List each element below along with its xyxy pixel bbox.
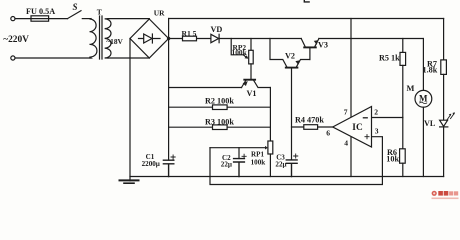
svg-text:R4 470k: R4 470k — [295, 116, 324, 125]
resistor R3 100k — [169, 126, 271, 128]
plus sign C1 — [171, 155, 175, 159]
svg-text:V3: V3 — [318, 41, 328, 50]
transistor V2 — [286, 67, 298, 69]
rail after rectifier — [169, 38, 302, 40]
output rail to motor — [319, 38, 423, 40]
svg-text:22µ: 22µ — [221, 160, 232, 168]
transformer core — [100, 16, 103, 59]
wire V3 base to V2 emitter — [309, 48, 311, 59]
diode VD — [211, 34, 219, 42]
top positive rail — [169, 18, 444, 20]
motor M — [415, 90, 432, 107]
ground — [120, 179, 139, 181]
svg-text:VL: VL — [424, 119, 436, 128]
resistor R7 1.8k — [441, 60, 447, 75]
potentiometer RP1 100k — [268, 141, 273, 154]
svg-text:T: T — [97, 8, 102, 17]
LED VL — [440, 120, 448, 126]
svg-text:22µ: 22µ — [275, 160, 286, 168]
junction bridge positive — [167, 37, 170, 40]
AC input terminal N — [11, 56, 15, 60]
svg-text:1.8k: 1.8k — [423, 66, 438, 75]
wire V1 collector down — [269, 88, 271, 142]
AC input terminal L — [11, 17, 15, 21]
op-amp IC — [333, 107, 372, 148]
svg-text:7: 7 — [344, 107, 348, 116]
resistor R2 100k — [169, 106, 271, 108]
plus sign C2 — [242, 154, 246, 158]
minus input mark — [363, 117, 367, 119]
fuse FU 0.5A — [31, 16, 49, 21]
wire op-amp pin 2 — [372, 117, 403, 119]
bottom ground rail — [130, 176, 444, 178]
svg-text:~18V: ~18V — [106, 37, 123, 46]
svg-text:R5 1k: R5 1k — [379, 54, 400, 63]
resistor R6 10k — [402, 118, 404, 149]
svg-text:2: 2 — [374, 108, 378, 117]
wire R7 to LED VL — [443, 74, 445, 120]
svg-text:2200µ: 2200µ — [142, 160, 160, 168]
plus input mark — [365, 135, 369, 139]
svg-text:10k: 10k — [386, 154, 399, 163]
capacitor C2 22µ — [238, 148, 240, 159]
svg-text:RP1: RP1 — [251, 151, 264, 159]
wire bridge negative down — [129, 39, 131, 181]
resistor R1 5 — [183, 36, 197, 41]
stray glyph fragment top edge — [304, 0, 309, 2]
svg-text:V2: V2 — [285, 52, 295, 61]
wire raw supply down to C1 — [168, 39, 170, 161]
transformer T secondary winding — [105, 19, 111, 58]
LED arrows — [447, 113, 454, 120]
watermark — [432, 191, 459, 199]
svg-text:M: M — [407, 84, 415, 93]
pin 7 wire — [350, 19, 352, 117]
wire wiper to op-amp pin 3 — [210, 137, 382, 185]
wire switch to transformer — [82, 18, 91, 20]
wire secondary bottom to bridge — [108, 57, 149, 59]
capacitor C3 22µ — [286, 160, 297, 177]
svg-text:V1: V1 — [247, 89, 257, 98]
wire secondary top to bridge — [108, 18, 149, 20]
svg-text:IC: IC — [352, 123, 363, 133]
wire bridge positive up — [168, 19, 170, 39]
svg-text:R1 5: R1 5 — [182, 29, 197, 38]
capacitor C1 2200µ — [163, 160, 173, 176]
svg-text:R3 100k: R3 100k — [205, 118, 234, 127]
wire motor branch — [422, 39, 424, 91]
pin 4 wire — [350, 137, 352, 176]
transistor V1 — [244, 79, 255, 81]
resistor R5 1k — [402, 39, 404, 53]
bridge rectifier UR — [130, 19, 169, 58]
svg-text:100k: 100k — [251, 158, 266, 166]
wire V2 base down to C3 — [291, 68, 293, 159]
wire LED to ground — [443, 127, 445, 177]
RP2 wiper link — [231, 39, 244, 55]
wire V1 emitter to raw rail — [169, 87, 242, 89]
svg-text:FU 0.5A: FU 0.5A — [26, 7, 55, 16]
transistor V3 — [304, 46, 316, 48]
svg-text:100k: 100k — [232, 48, 248, 57]
bridge internal diode — [139, 38, 161, 40]
svg-text:4: 4 — [344, 139, 348, 148]
wire L input — [15, 18, 68, 20]
resistor R4 470k — [292, 126, 333, 128]
transformer T primary winding — [90, 19, 97, 58]
plus sign C3 — [294, 154, 298, 158]
svg-text:3: 3 — [375, 126, 379, 135]
svg-text:R2 100k: R2 100k — [205, 96, 234, 105]
wire motor to ground — [422, 107, 424, 176]
switch S — [68, 11, 82, 19]
wire RP2 to V1 base — [250, 64, 252, 79]
potentiometer RP2 100k — [250, 39, 252, 51]
svg-text:~220V: ~220V — [3, 35, 29, 45]
wire N input — [15, 57, 90, 59]
svg-text:6: 6 — [326, 128, 330, 137]
svg-text:M: M — [419, 93, 428, 103]
svg-text:VD: VD — [211, 25, 223, 34]
svg-text:UR: UR — [154, 9, 165, 18]
svg-text:S: S — [73, 2, 78, 12]
wire top rail down to R7 — [443, 19, 445, 60]
